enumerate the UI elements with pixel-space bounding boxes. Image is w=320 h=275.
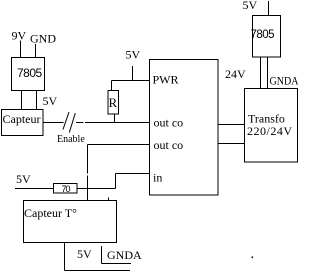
svg-text:out co: out co	[154, 138, 184, 152]
svg-text:24V: 24V	[225, 67, 246, 81]
break slash 1	[63, 112, 69, 130]
wire GNDA bracket horizontal	[102, 263, 132, 265]
svg-text:Capteur: Capteur	[3, 112, 41, 126]
wire break to R junction to PWR	[76, 122, 84, 124]
wire R bottom lead	[114, 114, 116, 123]
wire in horizontal	[116, 173, 150, 175]
wire vertical to Capteur T upper	[87, 145, 89, 174]
wire right 7805 lead a	[260, 57, 262, 89]
wire 9V lead	[20, 41, 22, 58]
wire in step vertical	[115, 174, 117, 189]
svg-text:5V: 5V	[77, 247, 92, 261]
wire 5V top right lead	[268, 1, 270, 16]
resistor R1 box	[108, 91, 119, 115]
svg-text:GNDA: GNDA	[270, 74, 299, 88]
wire 5V lead middle	[132, 66, 134, 81]
svg-text:GND: GND	[30, 32, 56, 46]
svg-text:7805: 7805	[251, 29, 275, 41]
break slash 2	[69, 113, 75, 133]
wire 7805 to Capteur right	[36, 91, 38, 110]
svg-text:R: R	[109, 95, 118, 110]
regulator U2 7805 right box	[253, 16, 281, 58]
svg-text:GNDA: GNDA	[107, 248, 142, 262]
svg-text:70: 70	[62, 184, 71, 194]
wire GNDA bracket vertical	[101, 246, 103, 264]
svg-text:7805: 7805	[17, 66, 43, 80]
svg-text:out co: out co	[154, 116, 184, 130]
wire GND lead	[35, 44, 37, 57]
wire R top lead	[111, 81, 113, 91]
svg-text:PWR: PWR	[153, 73, 179, 87]
sensor Capteur T box	[24, 201, 117, 243]
wire resistor to step	[77, 188, 116, 190]
wire bottom horizontal	[65, 270, 131, 272]
svg-text:5V: 5V	[126, 48, 141, 62]
module PWR box	[150, 60, 219, 196]
tick above Capteur T box	[108, 198, 110, 201]
regulator U1 7805 box	[12, 58, 45, 91]
svg-text:5V: 5V	[243, 0, 258, 12]
stray dot	[252, 257, 254, 259]
svg-text:in: in	[153, 171, 162, 185]
svg-text:Enable: Enable	[57, 134, 85, 145]
svg-text:220/24V: 220/24V	[247, 124, 293, 138]
sensor module Capteur box	[2, 110, 44, 136]
svg-text:5V: 5V	[43, 94, 58, 108]
wire 5V rail to PWR	[112, 80, 150, 82]
resistor R2 box bottom	[54, 184, 78, 194]
svg-text:Capteur T°: Capteur T°	[24, 206, 77, 220]
wire 5V to resistor bottom left	[15, 188, 53, 190]
wire Capteur to break	[43, 122, 64, 124]
wire Capteur T bottom lead	[64, 243, 66, 271]
svg-text:5V: 5V	[16, 172, 31, 186]
wire vertical to Capteur T lower	[87, 176, 89, 201]
wire PWR right out2	[219, 143, 245, 145]
wire out co 2 horizontal	[88, 144, 150, 146]
svg-text:9V: 9V	[12, 29, 27, 43]
wire 7805 to Capteur left	[21, 91, 23, 110]
transformer Transfo box	[245, 89, 298, 163]
wire PWR right out1	[219, 124, 245, 126]
wire right 7805 lead b	[267, 57, 269, 89]
wire junction to PWR in	[85, 122, 149, 124]
